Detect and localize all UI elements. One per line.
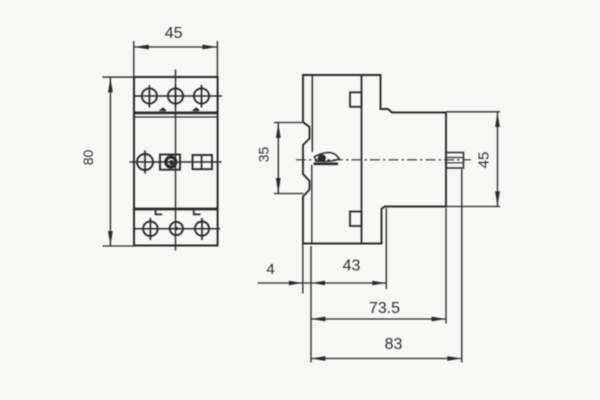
- dimension 80 (left height): [80, 77, 135, 246]
- rail clip spring (flag): [314, 153, 340, 164]
- dimension 4 (clip step): [258, 261, 312, 285]
- bottom terminal band thick line: [134, 208, 218, 211]
- adjustment shaft (knob): [446, 153, 464, 169]
- dimension 83: [311, 336, 462, 361]
- upper recess square: [350, 92, 362, 107]
- thin line under top band: [134, 116, 218, 118]
- wedge mark right above top band: [192, 107, 200, 111]
- test button circle middle-left: [137, 151, 153, 174]
- dimension 35 (rail height): [256, 123, 304, 194]
- top terminal center line: [134, 95, 222, 97]
- terminal screw top-left: [142, 85, 157, 108]
- extension line front face (for dim 73.5): [445, 208, 447, 324]
- dimension 73.5: [311, 300, 446, 321]
- svg-text:45: 45: [165, 25, 183, 42]
- svg-text:83: 83: [385, 336, 403, 353]
- internal vertical line of side view: [361, 75, 363, 244]
- breaker body outline (front view): [134, 77, 218, 246]
- notch hook right below bottom band: [194, 210, 201, 214]
- dimension 45 (top width): [134, 25, 218, 77]
- svg-text:4: 4: [266, 261, 274, 278]
- terminal screw bottom-left: [143, 218, 158, 240]
- side view body outline with DIN-rail clip profile: [303, 75, 446, 244]
- svg-text:80: 80: [80, 150, 96, 166]
- vertical center line of front view: [175, 70, 177, 251]
- svg-text:43: 43: [343, 258, 361, 275]
- svg-text:73.5: 73.5: [369, 300, 400, 317]
- svg-text:45: 45: [476, 152, 493, 169]
- notch hook left below bottom band: [156, 210, 163, 214]
- extension line back edge (for dim 4): [302, 244, 304, 294]
- horizontal center line (dash-dot): [296, 159, 471, 161]
- middle row center line: [130, 161, 222, 163]
- terminal screw bottom-middle: [170, 222, 183, 235]
- wedge mark left above top band: [159, 107, 167, 111]
- extension line knob tip (for dim 83): [461, 169, 463, 363]
- top terminal band thick line: [134, 112, 218, 115]
- extension line body step (for dim 43): [385, 208, 387, 289]
- terminal screw top-right: [194, 85, 209, 108]
- mounting plane inner line: [311, 75, 313, 152]
- extension line mounting plane (for dims 43/73.5/83): [310, 246, 312, 363]
- terminal screw top-middle: [168, 85, 183, 108]
- dimension 43: [311, 258, 386, 286]
- terminal screw bottom-right: [195, 218, 209, 240]
- bottom terminal center line: [135, 228, 220, 230]
- switch window: [193, 155, 213, 169]
- setting dial window: [160, 155, 180, 170]
- mounting plane inner line lower part: [311, 165, 313, 244]
- svg-text:35: 35: [256, 147, 272, 163]
- lower recess square: [350, 212, 362, 227]
- dimension 45 (side height right): [447, 112, 501, 207]
